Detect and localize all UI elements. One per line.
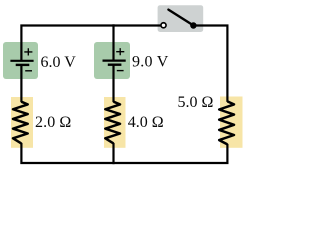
resistor R3 zigzag xyxy=(219,101,234,144)
resistor R2 zigzag xyxy=(105,102,120,144)
junction: middle branch meets bottom wire xyxy=(112,162,114,164)
battery V2 highlight box xyxy=(94,42,130,79)
svg-text:2.0 Ω: 2.0 Ω xyxy=(35,114,71,131)
switch S1 lever xyxy=(168,10,193,26)
resistor R1 zigzag xyxy=(13,102,28,144)
svg-text:6.0 V: 6.0 V xyxy=(41,54,77,71)
resistor R2 value label 4.0 ohm xyxy=(128,114,164,131)
junction: middle branch meets top wire xyxy=(112,24,114,26)
resistor R1 highlight box xyxy=(11,97,33,148)
switch S1 highlight box xyxy=(158,5,204,32)
resistor R3 highlight box xyxy=(220,97,243,148)
battery V1 highlight box xyxy=(3,42,38,79)
svg-text:5.0 Ω: 5.0 Ω xyxy=(178,94,214,111)
wire middle branch top xyxy=(112,24,114,60)
battery V1 symbol xyxy=(10,48,33,71)
switch S1 open terminal xyxy=(161,23,166,28)
wire middle branch bottom xyxy=(112,143,114,164)
battery V2 symbol xyxy=(103,48,126,71)
resistor R1 value label 2.0 ohm xyxy=(35,114,71,131)
wire top (left corner to switch) xyxy=(21,26,160,61)
wire bottom (left corner to right corner) xyxy=(21,143,227,163)
svg-text:9.0 V: 9.0 V xyxy=(132,54,169,71)
resistor R3 value label 5.0 ohm xyxy=(178,94,214,111)
battery V2 value label 9.0 V xyxy=(132,54,169,71)
wire battery V1 to resistor R1 xyxy=(20,65,22,102)
resistor R2 highlight box xyxy=(104,97,126,148)
battery V1 value label 6.0 V xyxy=(41,54,77,71)
wire battery V2 to resistor R2 xyxy=(112,65,114,102)
switch S1 hinge dot xyxy=(190,22,197,29)
svg-text:4.0 Ω: 4.0 Ω xyxy=(128,114,164,131)
wire top-right (switch to right corner) xyxy=(193,26,227,102)
